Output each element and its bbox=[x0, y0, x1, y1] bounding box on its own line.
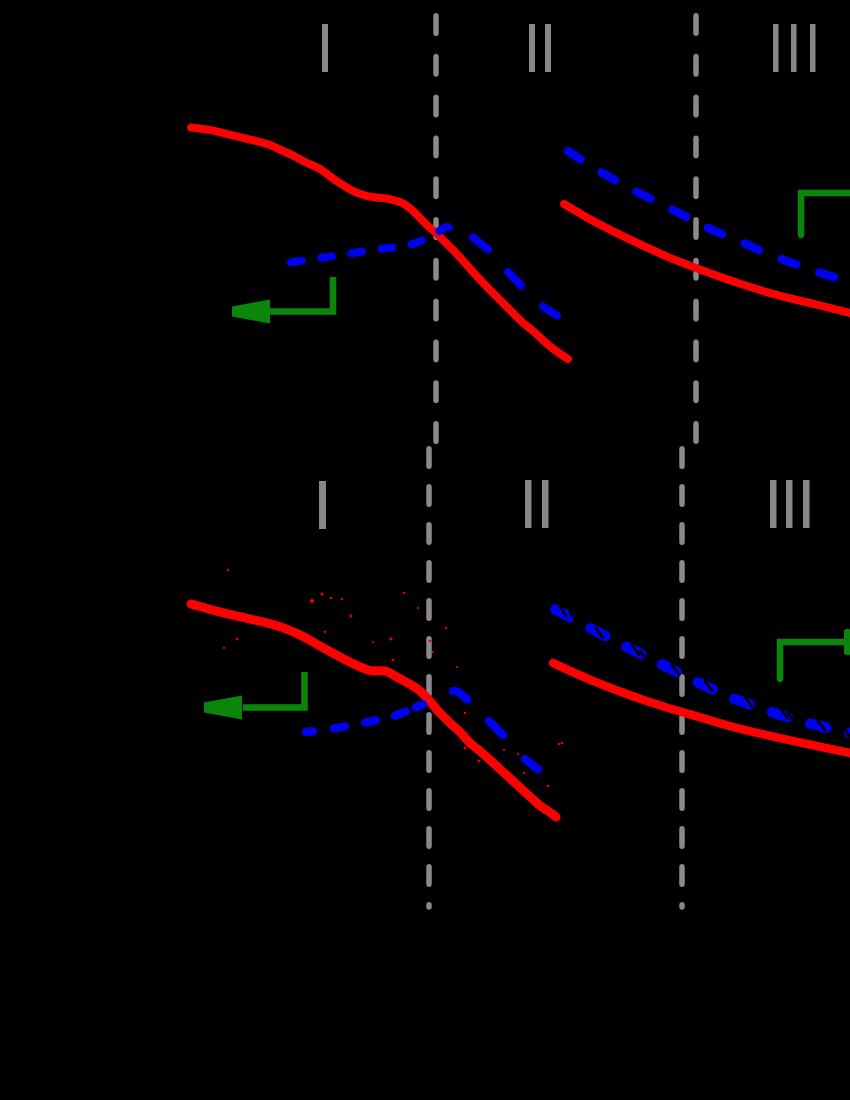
blue dashed curve (speckled raster), bottom panel regions II-III bbox=[551, 607, 850, 733]
blue dashed curve, top panel regions II-III bbox=[562, 147, 850, 282]
red solid curve, bottom panel regions I-II bbox=[191, 604, 556, 817]
region label III (bottom panel) bbox=[770, 480, 810, 528]
region label II (top panel) bbox=[529, 24, 551, 72]
blue dash segments, top panel descent after peak bbox=[473, 238, 557, 316]
dashed boundary line II/III (bottom panel) bbox=[679, 446, 685, 907]
red solid curve, top panel regions II-III bbox=[564, 204, 850, 313]
region label II (bottom panel) bbox=[525, 480, 549, 528]
region label III (top panel) bbox=[773, 24, 816, 72]
blue dashed curve, bottom panel regions I-II bbox=[306, 691, 538, 770]
red raster noise specks (bottom panel) bbox=[223, 569, 564, 788]
green annotation arrow to left axis (bottom panel) bbox=[243, 672, 305, 708]
region label I (bottom panel) bbox=[319, 481, 326, 529]
dashed boundary line I/II (top panel) bbox=[433, 13, 439, 445]
dashed boundary line I/II (bottom panel) bbox=[426, 446, 432, 907]
black speckle marks inside raster blue dashes (bottom panel) bbox=[560, 606, 850, 737]
region label I (top panel) bbox=[322, 24, 328, 72]
blue dashed curve, top panel regions I-II bbox=[287, 227, 455, 263]
green annotation arrow to left axis (top panel) bbox=[268, 277, 333, 312]
dashed boundary line II/III (top panel) bbox=[693, 13, 699, 445]
green arrowhead stub at right edge (bottom panel) bbox=[844, 629, 850, 655]
green annotation arrow to right axis (top panel) bbox=[801, 193, 850, 235]
green arrowhead (bottom panel, left) bbox=[204, 696, 242, 720]
green annotation arrow to right axis (bottom panel) bbox=[780, 642, 843, 679]
red solid curve, bottom panel regions II-III bbox=[553, 663, 850, 753]
red solid curve, top panel regions I-II bbox=[191, 128, 568, 360]
green arrowhead (top panel, left) bbox=[232, 300, 270, 324]
